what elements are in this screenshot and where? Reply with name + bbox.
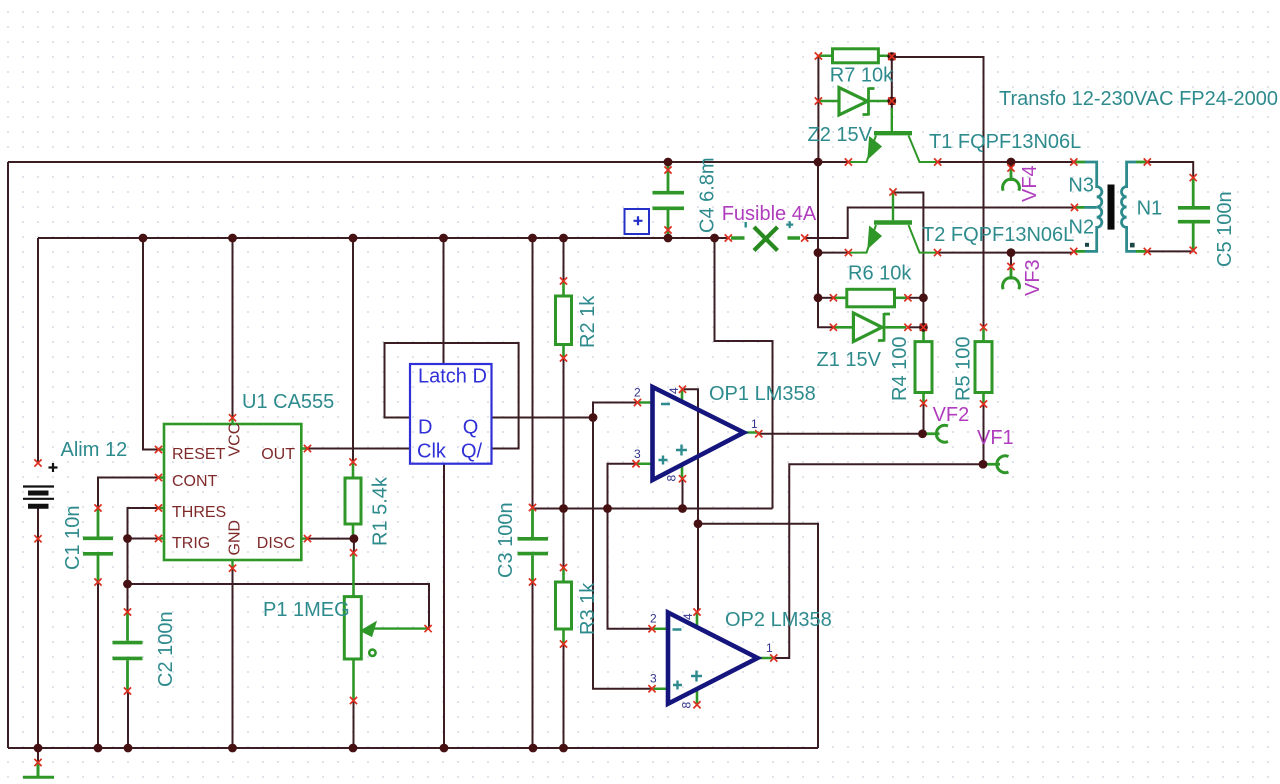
- pin VF3: [1007, 263, 1014, 270]
- wire bus to VCC: [232, 238, 234, 418]
- transformer core: [1108, 185, 1115, 230]
- pin T2 base: [889, 188, 896, 195]
- junction rail OP1 pin8: [678, 504, 687, 513]
- wire bus to RESET: [143, 238, 159, 450]
- junction latch Q node: [589, 413, 598, 422]
- op-amp OP1 LM358: [636, 387, 759, 480]
- junction TRIG node: [123, 534, 132, 543]
- pin VF4: [1007, 164, 1014, 171]
- pin R2 bottom: [560, 354, 567, 361]
- resistor R6 10k: [833, 296, 908, 299]
- pin OP1 out: [755, 430, 762, 437]
- pin transformer N1 bottom: [1144, 248, 1151, 255]
- pin T1 emitter: [845, 158, 852, 165]
- U1 pin stubs: [159, 418, 308, 568]
- wire fuse output to transformer tap: [805, 208, 1075, 239]
- pin T2 emitter: [845, 249, 852, 256]
- pin OP2 v+: [693, 608, 700, 615]
- svg-text:VF3: VF3: [1022, 259, 1044, 296]
- junction VF2: [918, 429, 927, 438]
- pin T2 collector: [934, 249, 941, 256]
- junction R6 left: [814, 293, 823, 302]
- pin C5 bottom: [1190, 247, 1197, 254]
- svg-text:R1 5.4k: R1 5.4k: [370, 476, 392, 546]
- pin R4 bottom: [920, 400, 927, 407]
- junction bus x353: [349, 234, 358, 243]
- wire C4 stubs: [667, 162, 669, 238]
- connector VF4: [1010, 168, 1013, 181]
- connector VF3: [1010, 267, 1013, 280]
- resistor R5 100: [982, 327, 985, 404]
- wire R6 right stub: [908, 297, 924, 299]
- wire OP1 pin8 to rail: [682, 479, 684, 509]
- junction op supply node: [694, 519, 703, 528]
- resistor R3 1k: [562, 568, 565, 644]
- pin transformer tap: [1071, 204, 1078, 211]
- junction T2 emitter node: [814, 248, 823, 257]
- wire latch bottom: [443, 464, 445, 748]
- wire transformer right top to C5: [1147, 162, 1193, 178]
- pin Z2 right: [888, 97, 895, 104]
- pin C2 top: [124, 608, 131, 615]
- svg-text:1: 1: [751, 417, 758, 431]
- pin DISC: [304, 535, 311, 542]
- pin transformer N3 top: [1070, 158, 1077, 165]
- potentiometer P1 1MEG: [352, 553, 355, 701]
- pin C5 top: [1190, 174, 1197, 181]
- wire OP1 pin3 to OP2 pin2: [608, 464, 653, 629]
- pin C3 bottom: [529, 578, 536, 585]
- pin R5 bottom: [980, 400, 987, 407]
- pin fuse right: [801, 234, 808, 241]
- junction Z1 right R4: [919, 323, 928, 332]
- wire OP1 out to VF2: [759, 433, 923, 435]
- wire bus to R1: [352, 238, 354, 462]
- wire R7 right to R5 top: [892, 57, 984, 327]
- svg-text:OP2 LM358: OP2 LM358: [725, 609, 832, 631]
- junction bottom battery: [34, 744, 43, 753]
- pin CONT: [155, 474, 162, 481]
- wire node to T2 emitter: [818, 252, 848, 254]
- connector VF1: [983, 463, 1000, 466]
- battery B1 Alim 12: [23, 463, 58, 506]
- svg-text:C4 6.8m: C4 6.8m: [697, 157, 719, 233]
- wire CONT to C1: [98, 478, 159, 509]
- wire node to R6 left: [818, 297, 833, 299]
- pin P1 bottom: [350, 697, 357, 704]
- wire DISC to R1 P1: [308, 539, 354, 553]
- pin T1 collector: [934, 158, 941, 165]
- pin ground: [34, 759, 41, 766]
- wire R4 to VF2: [923, 403, 925, 434]
- wire T2 base link to R4 top: [893, 193, 923, 328]
- svg-text:DISC: DISC: [257, 535, 295, 552]
- junction bus fuse riser: [710, 234, 719, 243]
- svg-text:VF4: VF4: [1019, 165, 1041, 202]
- wire R5 to VF1: [983, 404, 985, 464]
- wire ground top rail: [8, 161, 848, 163]
- transistor T2 FQPF13N06L: [874, 220, 912, 224]
- pin OP1 in+: [632, 460, 639, 467]
- resistor R2 1k: [562, 281, 565, 358]
- junction bus x232: [228, 234, 237, 243]
- svg-text:OUT: OUT: [261, 446, 295, 463]
- wire bus to R2: [563, 238, 565, 281]
- pin RESET: [155, 446, 162, 453]
- transformer TR1 windings: [1085, 162, 1137, 251]
- svg-text:8: 8: [680, 702, 694, 709]
- resistor R7 10k: [818, 54, 891, 57]
- pin R1 top: [349, 458, 356, 465]
- wire VF4 stub: [1010, 162, 1012, 168]
- wire T1 collector to transformer: [938, 161, 1073, 163]
- junction bottom C2: [124, 744, 133, 753]
- svg-text:RESET: RESET: [172, 446, 226, 463]
- pin OP2 v-: [693, 701, 700, 708]
- pin OP2 out: [770, 654, 777, 661]
- pin fuse left: [725, 234, 732, 241]
- svg-text:Transfo 12-230VAC FP24-2000: Transfo 12-230VAC FP24-2000: [999, 88, 1278, 110]
- svg-text:D: D: [418, 417, 432, 439]
- svg-text:N3: N3: [1068, 174, 1094, 196]
- pin battery plus: [34, 459, 41, 466]
- svg-text:1: 1: [766, 641, 773, 655]
- svg-text:TRIG: TRIG: [172, 535, 210, 552]
- wire R3 bottom: [563, 644, 565, 748]
- junction bus x443: [439, 234, 448, 243]
- junction rail OP1 pin3: [603, 504, 612, 513]
- pin GND: [229, 565, 236, 572]
- svg-text:8: 8: [665, 475, 679, 482]
- svg-text:THRES: THRES: [172, 504, 226, 521]
- pin R3 top: [560, 564, 567, 571]
- svg-text:Alim 12: Alim 12: [61, 439, 128, 461]
- junction VF3 tap: [1007, 248, 1016, 257]
- op-amp OP2 LM358: [652, 612, 774, 705]
- wire transformer right bottom to C5: [1147, 250, 1193, 252]
- junction wiper node: [123, 580, 132, 589]
- latch U2 Latch D body: [410, 364, 492, 464]
- svg-text:N1: N1: [1137, 197, 1163, 219]
- svg-text:VCC: VCC: [227, 423, 244, 457]
- wire R2 to R3 junction: [563, 358, 565, 568]
- winding N1: [1122, 162, 1137, 251]
- junction VF1: [979, 460, 988, 469]
- svg-text:Latch D: Latch D: [418, 365, 487, 387]
- svg-text:R5 100: R5 100: [953, 337, 975, 402]
- junction rail x818: [814, 158, 823, 167]
- svg-text:CONT: CONT: [172, 473, 218, 490]
- wire OP2 out riser to VF1: [774, 464, 983, 658]
- svg-text:4: 4: [667, 387, 681, 394]
- wire ground symbol stem top: [37, 748, 39, 762]
- wire opamp supply rail: [533, 508, 773, 510]
- svg-text:R4 100: R4 100: [889, 337, 911, 402]
- junction Z2 right: [887, 97, 896, 106]
- pin Z1 left: [830, 324, 837, 331]
- svg-text:R6 10k: R6 10k: [848, 263, 912, 285]
- capacitor C1 10n: [97, 508, 100, 582]
- svg-text:Z1 15V: Z1 15V: [817, 349, 882, 371]
- junction bus x563: [559, 234, 568, 243]
- junction bus x143: [139, 234, 148, 243]
- svg-text:VF2: VF2: [933, 404, 970, 426]
- wire P1 bottom: [353, 701, 355, 749]
- svg-text:4: 4: [681, 613, 695, 620]
- capacitor C4 6.8m: [667, 164, 670, 236]
- junction VF4 tap: [1007, 158, 1016, 167]
- svg-text:Clk: Clk: [417, 441, 447, 463]
- wire battery minus down: [37, 508, 39, 748]
- wire OP1 pin4 down to OP2 pin4: [683, 389, 699, 611]
- wire U1 GND down: [232, 568, 234, 748]
- wire OUT to Clk: [308, 448, 411, 450]
- pin R4 top: [920, 324, 927, 331]
- svg-text:2: 2: [650, 612, 657, 626]
- zener Z1 15V: [833, 326, 906, 329]
- pin OP2 in-: [648, 625, 655, 632]
- junction R7 right: [887, 52, 896, 61]
- pin transformer N2 bottom: [1070, 248, 1077, 255]
- pin R6 right: [904, 294, 911, 301]
- pin R2 top: [560, 277, 567, 284]
- ground: [37, 762, 40, 776]
- pin C4 bottom: [664, 226, 671, 233]
- pin C3 top: [529, 504, 536, 511]
- wire C1 bottom: [97, 582, 99, 748]
- junction bottom C1: [94, 744, 103, 753]
- wire latch D feedback loop: [385, 343, 519, 449]
- junction rail C4 top: [664, 158, 673, 167]
- svg-text:R7 10k: R7 10k: [830, 65, 894, 87]
- connector VF2: [923, 432, 940, 435]
- svg-text:C2 100n: C2 100n: [155, 611, 177, 687]
- wire latch Q to OP1 pin2 and OP2 pin3: [492, 403, 653, 689]
- svg-text:OP1 LM358: OP1 LM358: [709, 383, 816, 405]
- svg-text:C5 100n: C5 100n: [1214, 191, 1236, 267]
- pin P1 wiper: [425, 625, 432, 632]
- transformer phase dot right: [1130, 243, 1135, 248]
- pin OP1 in-: [634, 399, 641, 406]
- svg-text:VF1: VF1: [977, 427, 1014, 449]
- capacitor C2 100n: [126, 612, 129, 691]
- wire C2 bottom: [127, 691, 129, 748]
- wire battery plus to bus: [37, 238, 39, 463]
- pin R3 bottom: [560, 640, 567, 647]
- svg-text:C3 100n: C3 100n: [495, 502, 517, 578]
- wire R7 Z2 left vertical: [817, 56, 819, 162]
- fuse Fusible 4A: [731, 236, 800, 240]
- wire left node down to Z1: [818, 162, 833, 327]
- svg-text:3: 3: [634, 447, 641, 461]
- IC U1 CA555 body: [164, 424, 301, 560]
- pin THRES: [155, 504, 162, 511]
- wire bottom ground bus: [8, 747, 818, 749]
- pin OUT: [304, 445, 311, 452]
- capacitor C5 100n: [1192, 178, 1195, 251]
- winding tap: [1085, 206, 1097, 209]
- transistor T1 FQPF13N06L: [874, 131, 912, 135]
- junction bottom latch: [440, 744, 449, 753]
- pin transformer N1 top: [1144, 158, 1151, 165]
- wire main +12V bus: [38, 237, 728, 239]
- wire T1 base node: [891, 57, 893, 110]
- junction DISC node: [350, 534, 359, 543]
- wire Z1 right stub: [908, 326, 924, 328]
- svg-text:Z2 15V: Z2 15V: [808, 124, 873, 146]
- wire op ground return: [698, 524, 818, 748]
- junction rail R2R3: [559, 504, 568, 513]
- zener Z2 15V: [818, 100, 890, 103]
- pin R6 left: [830, 294, 837, 301]
- junction bus x532: [528, 234, 537, 243]
- pin Z2 left: [815, 97, 822, 104]
- winding N3 N2: [1085, 162, 1102, 251]
- junction bottom C3: [529, 744, 538, 753]
- svg-text:T2 FQPF13N06L: T2 FQPF13N06L: [922, 224, 1074, 246]
- svg-text:T1 FQPF13N06L: T1 FQPF13N06L: [929, 131, 1081, 153]
- capacitor C3 100n: [531, 508, 534, 583]
- wire T2 collector to transformer: [938, 252, 1073, 254]
- svg-text:Fusible 4A: Fusible 4A: [722, 203, 817, 225]
- transformer leads green stubs: [1074, 162, 1148, 251]
- resistor R4 100: [922, 327, 925, 403]
- pin Z1 right: [904, 324, 911, 331]
- wire left border vertical: [7, 162, 9, 748]
- wire bus to latch power: [443, 238, 445, 364]
- svg-text:C1 10n: C1 10n: [62, 506, 84, 571]
- wire bus riser to opamp rail: [715, 238, 773, 509]
- junction bottom R3: [559, 744, 568, 753]
- junction bus C4: [664, 234, 673, 243]
- svg-text:N2: N2: [1069, 217, 1095, 239]
- svg-text:GND: GND: [227, 520, 244, 556]
- pin OP1 v+: [679, 386, 686, 393]
- svg-text:R2 1k: R2 1k: [577, 295, 599, 348]
- pin C1 bottom: [94, 578, 101, 585]
- svg-text:2: 2: [634, 386, 641, 400]
- svg-text:U1 CA555: U1 CA555: [242, 391, 334, 413]
- wire to P1 wiper: [128, 584, 430, 629]
- transformer phase dot left: [1085, 243, 1089, 247]
- pin OP2 in+: [648, 685, 655, 692]
- power port plus box: [625, 209, 650, 234]
- pin R5 top: [980, 324, 987, 331]
- wire TRIG node down to C2: [127, 539, 129, 613]
- svg-text:3: 3: [650, 672, 657, 686]
- pin TRIG: [155, 535, 162, 542]
- svg-text:R3 1k: R3 1k: [577, 582, 599, 635]
- pin R7 right: [888, 53, 895, 60]
- resistor R1 5.4k: [352, 462, 355, 537]
- svg-text:Q/: Q/: [461, 441, 483, 463]
- pin R7 left: [815, 52, 822, 59]
- pin OP1 v-: [679, 475, 686, 482]
- wire THRES TRIG tie: [128, 508, 159, 539]
- pin C2 bottom: [124, 687, 131, 694]
- pin VCC: [229, 414, 236, 421]
- pin P1 top: [350, 549, 357, 556]
- junction bottom GND: [228, 744, 237, 753]
- pin C1 top: [94, 504, 101, 511]
- svg-text:Q: Q: [463, 417, 479, 439]
- wire C3 bottom: [532, 582, 534, 748]
- pin C4 top: [664, 166, 671, 173]
- pin battery minus: [34, 535, 41, 542]
- svg-text:P1 1MEG: P1 1MEG: [263, 599, 350, 621]
- wire VF3 stub: [1010, 253, 1012, 267]
- wire bus to C3: [532, 238, 534, 508]
- fuse polarity marks: [745, 222, 747, 228]
- junction bottom P1: [349, 744, 358, 753]
- junction R6 right: [919, 293, 928, 302]
